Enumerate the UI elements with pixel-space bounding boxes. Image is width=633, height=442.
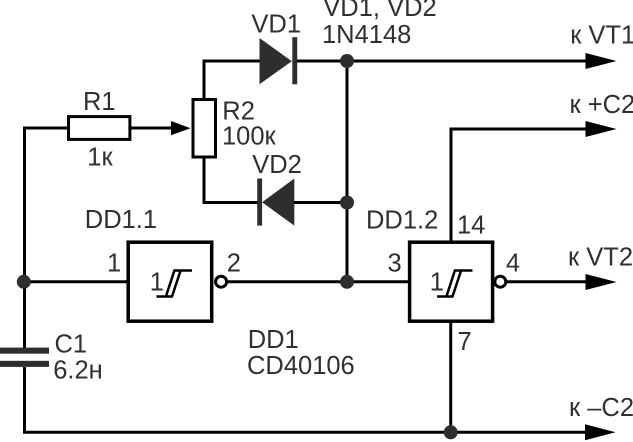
- gate DD1.2 box: [410, 242, 493, 321]
- svg-text:к +C2: к +C2: [570, 91, 633, 119]
- svg-text:DD1: DD1: [248, 326, 299, 354]
- svg-text:C1: C1: [55, 330, 88, 358]
- svg-text:R1: R1: [83, 88, 116, 116]
- wire VD2 anode to node: [294, 201, 347, 204]
- gate DD1.1 box (Schmitt-trigger inverter): [128, 242, 212, 321]
- node DD1.2 input junction: [340, 275, 354, 289]
- wire R1 to R2 wiper: [131, 127, 172, 130]
- node left rail junction: [17, 275, 31, 289]
- svg-text:к VT2: к VT2: [568, 243, 633, 271]
- node VD1 junction: [340, 54, 354, 68]
- svg-text:14: 14: [457, 212, 485, 240]
- resistor R1: [69, 117, 130, 140]
- wire DD1.1 input: [24, 280, 128, 283]
- svg-text:6.2н: 6.2н: [53, 357, 103, 385]
- vertical net wire VD1/VD2 node down to DD1.2 input: [346, 61, 349, 282]
- gate DD1.1 output bubble: [216, 276, 227, 287]
- svg-text:1к: 1к: [87, 143, 113, 171]
- svg-text:1: 1: [107, 250, 121, 278]
- wire left rail below C1 and bottom rail: [25, 367, 593, 432]
- potentiometer R2 body: [193, 100, 216, 158]
- svg-text:к –C2: к –C2: [569, 394, 633, 422]
- wire R2 top to VD1 anode: [204, 61, 260, 100]
- wire DD1.2 output to к VT2 arrow: [507, 280, 592, 283]
- arrow к VT2: [586, 274, 617, 290]
- arrow к VT1: [586, 53, 617, 69]
- node bottom rail junction: [444, 425, 458, 439]
- svg-text:1: 1: [430, 268, 444, 296]
- wire R2 bottom to VD2 cathode: [204, 156, 258, 203]
- capacitor C1 top plate: [0, 348, 49, 354]
- svg-text:DD1.2: DD1.2: [366, 206, 438, 234]
- arrow к +C2: [586, 121, 617, 137]
- wire pin 14 up and right to к +C2 arrow: [451, 129, 592, 243]
- diode VD2: [257, 179, 262, 226]
- diode VD1: [260, 38, 292, 84]
- gate DD1.2 output bubble: [495, 276, 506, 287]
- svg-text:R2: R2: [222, 97, 255, 125]
- svg-text:DD1.1: DD1.1: [85, 206, 157, 234]
- svg-text:VD1: VD1: [251, 11, 301, 39]
- svg-text:1N4148: 1N4148: [322, 21, 411, 49]
- wire pin 7 down to bottom rail: [449, 321, 452, 432]
- gate DD1.2 hysteresis symbol: [437, 271, 473, 297]
- svg-text:VD2: VD2: [252, 151, 302, 179]
- wire from R1 left to left rail down to C1: [25, 128, 69, 348]
- svg-text:CD40106: CD40106: [247, 352, 355, 380]
- svg-text:к VT1: к VT1: [570, 21, 633, 49]
- svg-text:3: 3: [388, 250, 402, 278]
- capacitor C1 bottom plate: [0, 361, 49, 367]
- gate DD1.1 hysteresis symbol: [157, 271, 193, 297]
- svg-text:4: 4: [506, 250, 520, 278]
- svg-text:1: 1: [150, 268, 164, 296]
- svg-text:7: 7: [458, 328, 472, 356]
- svg-text:2: 2: [227, 250, 241, 278]
- node VD2 junction: [340, 196, 354, 210]
- svg-text:100к: 100к: [222, 122, 277, 150]
- R2 wiper arrow: [171, 121, 191, 135]
- svg-text:VD1, VD2: VD1, VD2: [323, 0, 436, 22]
- arrow к -C2: [585, 424, 616, 440]
- wire DD1.1 output to DD1.2 input: [228, 280, 409, 283]
- wire VD1 cathode to к VT1 arrow: [297, 60, 592, 63]
